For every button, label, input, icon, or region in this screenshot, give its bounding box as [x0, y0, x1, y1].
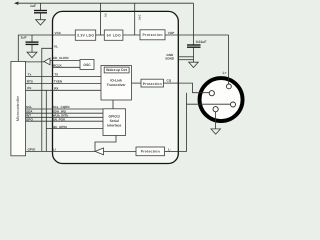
svg-text:LI: LI — [53, 148, 56, 152]
svg-text:0.01uF: 0.01uF — [196, 40, 207, 44]
svg-text:OSC: OSC — [83, 63, 91, 67]
svg-text:VUP: VUP — [168, 31, 174, 35]
svg-text:Interface: Interface — [107, 124, 121, 128]
svg-text:Serial: Serial — [110, 119, 119, 123]
svg-text:1uF: 1uF — [30, 4, 36, 8]
svg-text:Protection: Protection — [143, 82, 162, 86]
svg-text:L-: L- — [168, 147, 171, 151]
svg-text:SGND: SGND — [165, 56, 175, 60]
svg-text:1uF: 1uF — [21, 36, 27, 40]
svg-text:GPO: GPO — [26, 117, 33, 121]
svg-text:EN_POK: EN_POK — [53, 117, 66, 121]
svg-text:MCLK: MCLK — [53, 63, 63, 67]
svg-text:RTS: RTS — [27, 80, 33, 84]
svg-text:Rx: Rx — [27, 86, 31, 90]
svg-text:Wakeup Det: Wakeup Det — [106, 68, 128, 72]
svg-text:IO-Link: IO-Link — [110, 78, 122, 82]
svg-text:24V: 24V — [137, 15, 141, 22]
svg-text:L+: L+ — [223, 71, 227, 75]
svg-text:Transceiver: Transceiver — [107, 83, 127, 87]
svg-text:TXEN: TXEN — [54, 80, 63, 84]
svg-text:GPIO1/: GPIO1/ — [109, 115, 120, 119]
svg-text:5V LDO: 5V LDO — [107, 34, 121, 38]
svg-text:3.3V LDO: 3.3V LDO — [77, 34, 94, 38]
svg-text:GPIO: GPIO — [28, 148, 36, 152]
svg-text:Protection: Protection — [141, 150, 160, 154]
svg-text:VCC: VCC — [55, 31, 62, 35]
svg-text:I2C_GPIO: I2C_GPIO — [53, 125, 68, 129]
svg-text:Tx: Tx — [28, 72, 32, 76]
svg-text:VL: VL — [54, 45, 58, 49]
svg-text:AD_CLKIN: AD_CLKIN — [53, 56, 69, 60]
svg-text:Protection: Protection — [143, 33, 163, 37]
svg-text:Microcontroller: Microcontroller — [16, 95, 20, 121]
svg-text:CQ: CQ — [167, 79, 172, 83]
